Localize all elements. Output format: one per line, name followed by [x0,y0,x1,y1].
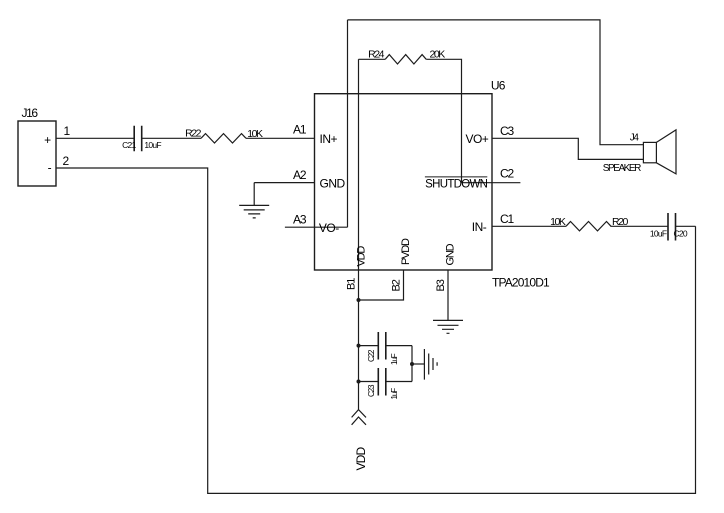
svg-text:VDD: VDD [354,447,368,471]
wire pin C2 / SHUTDOWN [462,182,521,184]
IC U6 box [315,94,493,270]
svg-text:10K: 10K [247,128,263,140]
wire pin A3 / VO- [285,226,348,228]
capacitor C22 [378,332,386,360]
svg-text:R24: R24 [368,49,385,61]
wire C22/C23 right join [411,346,413,382]
svg-text:VO-: VO- [319,221,339,235]
svg-text:C20: C20 [674,228,688,238]
svg-text:C23: C23 [367,384,376,397]
junction ground tap [410,362,414,366]
junction B1/B2 [357,298,361,302]
capacitor C22 wires [359,345,413,347]
svg-text:C22: C22 [367,349,376,362]
svg-text:C3: C3 [500,124,514,138]
capacitor C23 wires [359,381,413,383]
svg-text:J16: J16 [22,106,39,120]
junction C23 tap [357,380,361,384]
SHUTDOWN overline [425,176,487,178]
wire pin A2 [254,182,314,184]
speaker J4 horn [656,130,676,174]
svg-text:SPEAKER: SPEAKER [603,163,641,174]
svg-text:IN+: IN+ [320,132,338,146]
svg-text:C2: C2 [500,167,514,181]
svg-text:R22: R22 [185,127,202,139]
wire R24 left / VDD rail [358,59,360,409]
svg-text:10uF: 10uF [650,228,667,238]
svg-text:R20: R20 [612,216,629,228]
svg-text:C21: C21 [122,140,136,150]
capacitor C23 [378,368,386,396]
wire R24 left horizontal [359,58,386,60]
wire A2 to ground [253,183,255,206]
svg-text:A1: A1 [293,123,307,137]
svg-text:10uF: 10uF [144,140,161,150]
connector J16 [18,121,56,186]
wire R22 to pin A1 [246,137,315,139]
svg-text:B2: B2 [391,279,403,291]
resistor R24 [385,55,426,64]
wire C20 right [676,225,696,227]
svg-text:B1: B1 [346,278,358,290]
svg-text:1uF: 1uF [390,353,399,365]
svg-text:SHUTDOWN: SHUTDOWN [425,178,488,190]
svg-text:A3: A3 [293,213,307,227]
svg-text:A2: A2 [293,168,307,182]
junction C22 tap [357,344,361,348]
svg-text:VO+: VO+ [465,132,488,146]
wire pin B2 to B1 [359,270,404,300]
wire R24 right [426,59,461,182]
wire join to ground [412,363,424,365]
wire top to speaker [348,20,644,145]
wire J16 pin2 loop to C20 [56,168,696,493]
wire C21 to R22 [142,137,201,139]
svg-text:GND: GND [444,243,456,265]
svg-text:U6: U6 [491,79,506,93]
capacitor C21 [134,126,142,151]
svg-text:20K: 20K [430,49,446,61]
svg-text:GND: GND [320,176,346,190]
svg-text:B3: B3 [435,279,447,291]
wire J16 pin1 to C21 [56,137,134,139]
svg-text:PVDD: PVDD [400,238,412,265]
wire VO- feedback up [347,20,349,227]
junction dots [357,298,415,384]
resistor R22 [201,134,246,143]
ground (A2) [239,205,269,218]
svg-text:VDD: VDD [355,246,367,267]
svg-text:C1: C1 [500,212,514,226]
ground (right of C22) [424,349,437,380]
capacitor C20 [668,213,676,241]
wire R20 to C20 [611,225,669,227]
svg-text:TPA2010D1: TPA2010D1 [492,276,550,290]
speaker J4 body [643,142,656,162]
svg-text:10K: 10K [550,216,566,228]
svg-text:1uF: 1uF [390,388,399,400]
wire pin C1 to R20 [492,225,566,227]
svg-text:IN-: IN- [472,220,487,234]
VDD power symbol [352,410,366,425]
ground (B3) [433,320,463,333]
wire pin B3 to ground [447,270,449,320]
wire pin C3 / VO+ to speaker [492,138,643,159]
resistor R20 [566,222,611,231]
